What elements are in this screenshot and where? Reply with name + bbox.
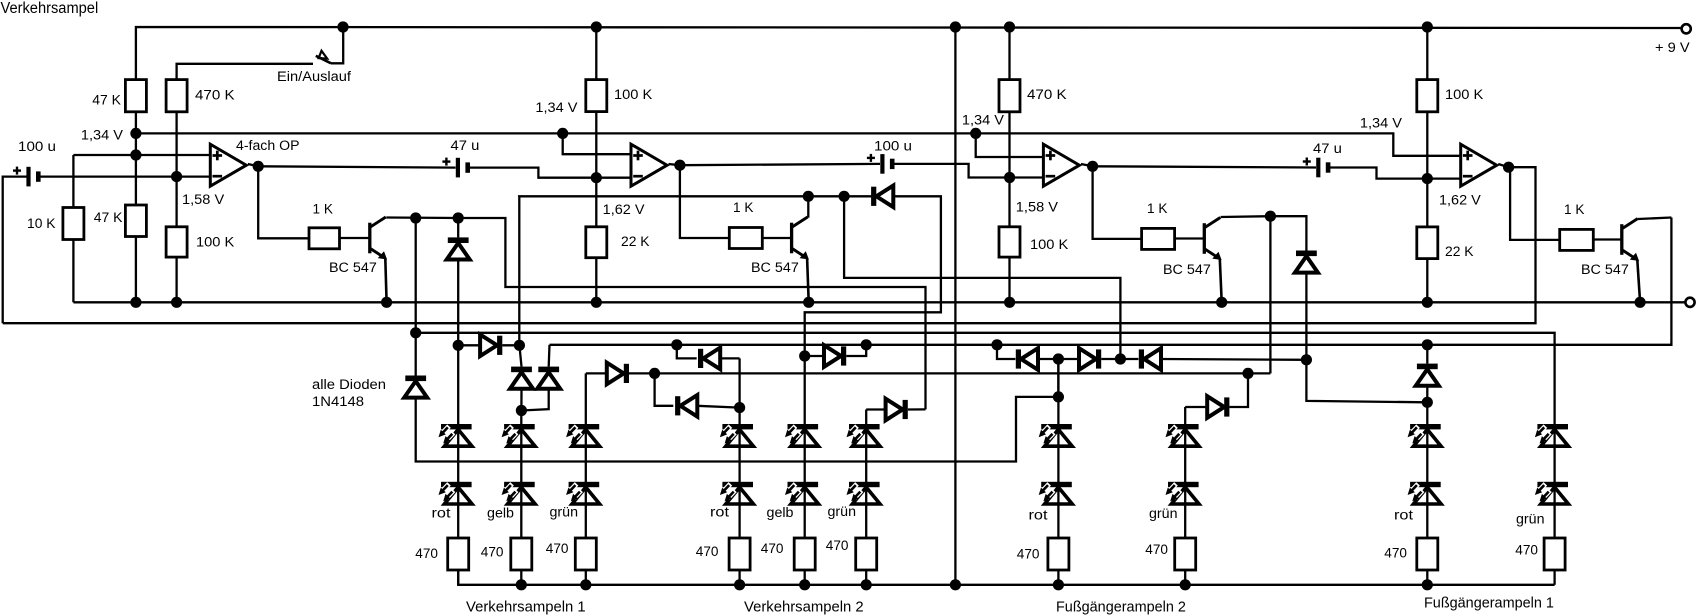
resistor R3 47 K <box>125 205 146 237</box>
node bus345 gelb VA2 <box>861 339 872 350</box>
node rot VA1 top <box>453 340 464 351</box>
svg-text:rot: rot <box>1029 508 1048 523</box>
svg-text:1 K: 1 K <box>313 201 333 216</box>
wire rot VA2 stub up <box>738 358 740 407</box>
svg-text:4-fach OP: 4-fach OP <box>236 138 300 153</box>
LED gruen VA2 upper <box>849 424 880 429</box>
resistor 470 gruen VA2 <box>856 538 877 570</box>
svg-text:47 K: 47 K <box>92 93 121 108</box>
wire op4 to R15 <box>1509 167 1560 240</box>
node FG2 chain left <box>991 339 1002 350</box>
op-amp U1A <box>210 144 246 186</box>
capacitor C2 47 u <box>456 158 460 178</box>
node rot VA2 top <box>734 402 745 413</box>
resistor R5 10 K <box>63 208 84 240</box>
wire Q3 collector bus <box>1221 216 1307 250</box>
wire 47K bottom column <box>135 112 137 205</box>
wire bus373 <box>655 372 1271 374</box>
diode D1 1N4148 <box>405 376 426 382</box>
resistor R11 100 K <box>999 227 1020 257</box>
capacitor C3 100 u <box>880 154 884 174</box>
wire op2 output <box>669 164 680 165</box>
wire Q2 collector up <box>807 196 809 217</box>
wire 1,34V bus mid <box>563 133 1461 155</box>
wire op4 feedback to C1 bus <box>3 167 1536 323</box>
svg-text:470: 470 <box>481 545 504 560</box>
transistor Q1 BC 547 <box>340 237 369 239</box>
diode D10 bus345 to rot VA2 <box>671 339 682 350</box>
LED gruen FG2 upper <box>1168 424 1199 429</box>
wire op1 - input <box>38 175 210 177</box>
svg-text:alle Dioden: alle Dioden <box>312 377 386 392</box>
wire op2 to R9 <box>680 165 729 238</box>
svg-text:1,34 V: 1,34 V <box>1360 115 1402 130</box>
svg-text:rot: rot <box>710 505 729 520</box>
diode D14 chain <box>997 345 1015 359</box>
resistor R9 1 K <box>729 228 762 249</box>
node gelb VA1 top <box>514 340 525 351</box>
svg-text:100 K: 100 K <box>196 235 234 250</box>
svg-text:grün: grün <box>1149 506 1178 521</box>
node gelb VA2 top <box>799 350 810 361</box>
wire op4 - input <box>1427 177 1460 179</box>
svg-text:100 u: 100 u <box>874 139 912 154</box>
svg-text:22 K: 22 K <box>1445 244 1474 259</box>
resistor R10 470 K <box>1004 21 1015 32</box>
diode D17 gruen FG2 <box>1185 406 1207 408</box>
resistor 470 rot VA1 <box>448 538 469 570</box>
LED gruen VA1 lower <box>569 482 600 487</box>
LED gruen FG1 lower <box>1537 482 1568 487</box>
wire bus333 to gruen FG1 <box>416 333 1555 424</box>
svg-text:Fußgängerampeln 2: Fußgängerampeln 2 <box>1056 599 1186 616</box>
svg-text:470: 470 <box>1384 546 1407 561</box>
diode D6 stage2 feedback <box>871 187 876 206</box>
wire +9V top rail <box>136 27 1686 80</box>
wire bus345 Q4 net <box>550 218 1672 345</box>
node 1,58 V stage3 <box>1004 172 1015 183</box>
svg-text:1,62 V: 1,62 V <box>603 202 645 217</box>
wire D2 to rot VA1 <box>457 260 459 346</box>
wire Q2 secondary branch <box>844 196 1120 359</box>
svg-text:1,34 V: 1,34 V <box>962 112 1004 127</box>
diode D11 gelb VA2 to bus345 <box>841 346 846 365</box>
wire R13 to 1,62V node <box>1426 112 1428 179</box>
wire stage3 collector down <box>1269 216 1271 373</box>
wire pair join <box>520 389 522 411</box>
wire bottom +9V LED rail <box>458 570 1554 585</box>
LED gelb VA2 upper <box>788 424 819 429</box>
wire 1,34V bus <box>136 133 631 154</box>
switch Ein/Auslauf <box>331 27 343 63</box>
diode D7 under Q3 <box>1296 251 1317 257</box>
diode D8 to gruen VA1 <box>586 372 607 374</box>
LED rot FG2 lower <box>1041 482 1072 487</box>
svg-text:470: 470 <box>1145 542 1168 557</box>
resistor R1 47 K <box>125 80 146 112</box>
wire gruen VA1 column top <box>585 373 587 424</box>
node Q2 emitter <box>803 297 814 308</box>
LED rot VA2 upper <box>722 424 753 429</box>
diode D3 rot-gelb VA1 <box>458 344 480 346</box>
node 1,62 V stage4 <box>1422 173 1433 184</box>
wire 0V rail <box>73 301 1685 303</box>
wire rot VA2 column <box>738 408 740 538</box>
svg-text:grün: grün <box>828 504 857 519</box>
wire op2 - input <box>596 177 631 179</box>
transistor Q3 BC 547 <box>1175 237 1204 239</box>
wire Q1 collector bus <box>386 218 925 410</box>
transistor Q2 BC 547 <box>762 237 790 239</box>
resistor 470 gruen FG2 <box>1175 538 1196 570</box>
node rot FG2 feed <box>1053 391 1064 402</box>
svg-text:100 K: 100 K <box>1030 237 1068 252</box>
resistor 470 rot VA2 <box>729 538 750 570</box>
LED gelb VA1 upper <box>504 424 535 429</box>
svg-text:470: 470 <box>761 541 784 556</box>
wire C3 to stage3 minus <box>892 164 1009 178</box>
wire op1 output <box>248 164 258 166</box>
resistor R7 100 K <box>591 21 602 32</box>
svg-text:1,34 V: 1,34 V <box>535 100 577 115</box>
svg-text:1 K: 1 K <box>1564 202 1584 217</box>
LED rot VA1 upper <box>441 424 472 429</box>
node Q1 emitter <box>381 297 392 308</box>
wire rot VA1 column <box>457 345 459 538</box>
resistor R14 22 K <box>1417 227 1438 259</box>
svg-text:470: 470 <box>1515 543 1538 558</box>
svg-text:100 K: 100 K <box>614 87 652 102</box>
wire 470K top to switch <box>177 64 313 80</box>
svg-text:+ 9 V: + 9 V <box>1655 40 1690 55</box>
LED gruen FG1 upper <box>1537 424 1568 429</box>
wire gruen VA1 column <box>585 424 587 538</box>
resistor 470 gruen VA1 <box>575 538 596 570</box>
svg-text:Ein/Auslauf: Ein/Auslauf <box>277 69 351 84</box>
terminal +9V <box>1682 24 1691 33</box>
svg-text:gelb: gelb <box>487 506 514 521</box>
resistor R8 22 K <box>586 227 607 258</box>
wire C1 left to feedback bus <box>3 177 29 324</box>
LED rot FG2 upper <box>1041 424 1072 429</box>
svg-text:Verkehrsampel: Verkehrsampel <box>1 0 99 17</box>
svg-text:470: 470 <box>826 538 849 553</box>
svg-text:BC 547: BC 547 <box>1581 262 1629 277</box>
node rot FG1 mid <box>1422 397 1433 408</box>
wire R7 to 1,62V node <box>595 112 597 178</box>
op-amp U1D <box>1461 144 1497 186</box>
wire 10K column <box>72 155 74 208</box>
terminal 0V <box>1685 298 1694 307</box>
wire R10 to 1,58V node <box>1008 112 1010 178</box>
diode D12 Q1 to gruen VA2 <box>866 408 885 410</box>
LED rot VA1 lower <box>441 482 472 487</box>
svg-text:1N4148: 1N4148 <box>312 394 364 409</box>
resistor R13 100 K <box>1422 21 1433 32</box>
capacitor C4 47 u <box>1316 158 1320 178</box>
svg-text:1 K: 1 K <box>733 200 753 215</box>
svg-text:47 u: 47 u <box>451 138 480 153</box>
diode D9 to rot VA2 <box>655 373 674 405</box>
svg-text:470: 470 <box>1017 547 1040 562</box>
wire mid +9V drop <box>954 27 956 585</box>
resistor 470 rot FG2 <box>1048 538 1069 570</box>
svg-text:22 K: 22 K <box>621 234 650 249</box>
op-amp U1B <box>631 144 667 186</box>
wire op3 + input <box>976 133 1044 157</box>
LED gruen VA1 upper <box>569 424 600 429</box>
resistor 470 gelb VA1 <box>511 538 532 570</box>
wire gelb VA1 feed down <box>518 197 520 346</box>
node chain-rot FG1 junction <box>1301 354 1312 365</box>
svg-text:grün: grün <box>1516 512 1545 527</box>
wire op3 out to C4 <box>1093 166 1316 167</box>
svg-text:1,58 V: 1,58 V <box>1016 200 1058 215</box>
wire gruen FG1 column <box>1553 424 1555 538</box>
svg-text:470 K: 470 K <box>195 88 235 103</box>
wire op3 - input <box>1010 176 1044 178</box>
wire stage2 collector bus <box>519 195 876 197</box>
svg-text:100 K: 100 K <box>1445 87 1483 102</box>
LED gruen FG2 lower <box>1168 482 1199 487</box>
svg-text:1,34 V: 1,34 V <box>81 128 123 143</box>
diode D4 gelb VA1 pair left <box>519 345 521 366</box>
LED gruen VA2 lower <box>849 482 880 487</box>
svg-text:BC 547: BC 547 <box>329 260 377 275</box>
LED rot FG1 upper <box>1410 424 1441 429</box>
wire op3 output <box>1081 164 1093 166</box>
wire rot FG1 column <box>1426 402 1428 538</box>
wire gruen FG2 column <box>1184 407 1186 538</box>
wire gelb VA2 column <box>804 356 806 538</box>
svg-text:Verkehrsampeln 2: Verkehrsampeln 2 <box>744 599 864 616</box>
diode D15 chain <box>1058 358 1080 360</box>
svg-text:rot: rot <box>1394 508 1413 523</box>
svg-text:Fußgängerampeln 1: Fußgängerampeln 1 <box>1424 595 1554 612</box>
svg-text:1,62 V: 1,62 V <box>1439 193 1481 208</box>
resistor 470 gelb VA2 <box>794 538 815 570</box>
resistor R6 1 K <box>309 228 340 249</box>
node 1,34 V stage1 <box>337 21 348 32</box>
svg-text:10 K: 10 K <box>27 216 56 231</box>
wire chain to rot FG1 <box>1306 360 1426 403</box>
wire 470K to 1,58V node <box>175 112 177 177</box>
wire gelb VA1 column <box>520 411 522 539</box>
diode D5 gelb VA1 pair right <box>548 345 551 367</box>
diode D2 under Q1 <box>457 218 459 237</box>
wire C4 to stage4 minus <box>1328 168 1427 179</box>
svg-text:470: 470 <box>696 544 719 559</box>
wire C2 to stage2 minus <box>468 168 597 178</box>
LED gelb VA2 lower <box>788 482 819 487</box>
LED rot FG1 lower <box>1410 482 1441 487</box>
wire D7 down <box>1305 273 1307 360</box>
svg-text:BC 547: BC 547 <box>751 260 799 275</box>
svg-text:470: 470 <box>546 541 569 556</box>
wire op1 out to C2 <box>258 166 455 167</box>
node Q3 emitter <box>1216 297 1227 308</box>
capacitor C1 100 u <box>26 167 30 187</box>
wire rot FG2 upper <box>1057 359 1059 397</box>
svg-text:BC 547: BC 547 <box>1163 262 1211 277</box>
node Q4 emitter <box>1635 297 1646 308</box>
wire op3 to R12 <box>1093 166 1142 239</box>
svg-text:470: 470 <box>415 546 438 561</box>
resistor R12 1 K <box>1142 228 1175 249</box>
svg-text:Verkehrsampeln 1: Verkehrsampeln 1 <box>466 599 586 616</box>
diode D13 rot FG1 <box>1422 339 1433 350</box>
wire gruen VA2 column top <box>865 410 867 425</box>
svg-text:1,58 V: 1,58 V <box>182 192 224 207</box>
wire gruen VA2 column <box>865 424 867 538</box>
resistor R15 1 K <box>1560 229 1594 250</box>
svg-text:100 u: 100 u <box>18 139 56 154</box>
node 1,58 V stage1 <box>171 171 182 182</box>
node bus333 start <box>410 327 421 338</box>
wire op1 + input <box>73 154 210 156</box>
svg-text:47 u: 47 u <box>1313 141 1342 156</box>
svg-text:1 K: 1 K <box>1147 201 1167 216</box>
node gelb VA1 join <box>516 405 527 416</box>
svg-text:rot: rot <box>432 506 451 521</box>
svg-text:grün: grün <box>550 505 579 520</box>
node chain mid2 <box>1115 353 1126 364</box>
wire branch x416 down <box>415 218 417 376</box>
LED rot VA2 lower <box>722 482 753 487</box>
svg-text:470 K: 470 K <box>1027 87 1067 102</box>
wire op1 to R6 <box>258 166 309 238</box>
transistor Q4 BC 547 <box>1593 238 1621 240</box>
wire op4 output <box>1498 164 1508 167</box>
resistor 470 gruen FG1 <box>1544 538 1565 570</box>
wire D6 to gelb VA2 <box>805 196 941 356</box>
svg-text:gelb: gelb <box>767 505 794 520</box>
wire op2 out to C3 <box>680 164 880 165</box>
diode D16 chain <box>1120 358 1138 360</box>
LED gelb VA1 lower <box>504 482 535 487</box>
resistor R2 470 K <box>166 80 187 112</box>
wire D1 to bus462 <box>416 397 1059 462</box>
resistor R4 100 K <box>166 227 187 257</box>
node 1,62 V stage2 <box>591 172 602 183</box>
op-amp U1C <box>1043 144 1079 186</box>
wire Q4 collector <box>1638 218 1671 220</box>
node chain mid1 <box>1053 353 1064 364</box>
svg-text:47 K: 47 K <box>94 210 123 225</box>
wire rot FG2 column <box>1057 359 1059 538</box>
resistor 470 rot FG1 <box>1417 538 1438 570</box>
